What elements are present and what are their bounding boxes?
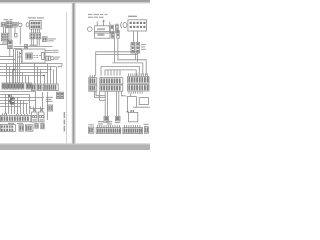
harness vertical bundle — [14, 49, 20, 84]
main switch label — [128, 16, 137, 17]
route wire A — [130, 94, 132, 97]
switch contact block — [26, 53, 32, 59]
connector bank right bottom — [128, 84, 149, 91]
marks above square — [130, 110, 134, 112]
mesh wire h4 — [0, 103, 28, 105]
arrow wire 3 — [109, 22, 111, 26]
speedometer unit 2 — [39, 112, 45, 122]
route wire D — [136, 97, 138, 108]
drop wires right group — [35, 64, 57, 84]
resistor stack — [131, 42, 140, 53]
mesh wire h2 — [0, 97, 44, 99]
bottom comb ticks right — [129, 91, 142, 93]
switch inner right rect — [42, 53, 45, 60]
dense junction cluster — [8, 94, 14, 104]
wire — [0, 44, 8, 46]
connector block B — [6, 22, 12, 28]
top margin band — [0, 0, 150, 2]
mesh wire h5 — [0, 106, 20, 108]
connector row block 5 — [31, 84, 36, 90]
CDI pins — [32, 29, 40, 33]
square box — [128, 112, 137, 121]
wire from fuse down — [114, 38, 116, 62]
ignition coil T1 — [8, 40, 12, 48]
bus wire 5 — [0, 75, 44, 77]
bus wire 3 — [0, 69, 52, 71]
switch dashes — [34, 55, 41, 57]
resistor labels — [141, 44, 146, 50]
bus label — [58, 66, 63, 67]
junction dot — [41, 109, 43, 111]
junction dot — [34, 109, 36, 111]
plug circle — [51, 57, 54, 60]
bottom strip row 2 left — [0, 125, 15, 132]
main switch box S1 — [128, 20, 147, 31]
connector bank mid bottom — [100, 85, 123, 91]
wires from CDI connectors — [31, 39, 39, 46]
terminal box above — [25, 45, 28, 49]
bottom strip long 2 — [123, 128, 143, 134]
battery block — [19, 125, 23, 131]
ignition coil pins — [9, 28, 11, 40]
connector block C — [13, 23, 17, 28]
label text right of diode — [48, 38, 56, 41]
lamp labels — [104, 122, 121, 123]
wires from grid — [3, 41, 7, 45]
fuse F1 — [111, 25, 114, 33]
connector row block mid — [26, 83, 31, 89]
label text above CDI — [28, 17, 44, 18]
small component pair — [112, 32, 115, 39]
connector below CDI left — [30, 33, 35, 39]
bus wire 4 — [0, 72, 48, 74]
route wire C — [127, 97, 129, 111]
tail wire 5 — [121, 91, 125, 95]
second frame wire — [96, 54, 138, 56]
headlight circle — [88, 27, 93, 32]
lamp circle — [19, 23, 22, 26]
mesh wire h3 — [0, 100, 36, 102]
strip label text — [8, 123, 23, 124]
mesh wire h0 — [0, 91, 36, 93]
route dot — [127, 111, 129, 113]
drop wires left group — [7, 64, 29, 84]
small block under gauge2 — [41, 124, 44, 129]
tail wire 3 — [100, 91, 106, 100]
gauge feed wires — [31, 92, 45, 112]
key bracket — [121, 22, 122, 28]
route wire E — [133, 106, 150, 108]
horn box — [95, 32, 110, 39]
mesh verticals — [6, 95, 30, 115]
bottom strip small left — [88, 127, 93, 133]
arrow wire 2 — [103, 20, 105, 26]
route wire B — [126, 96, 136, 98]
bus wire 1 — [0, 64, 62, 67]
bottom strip 2 ticks — [125, 125, 140, 128]
arrow wire 1 — [96, 22, 98, 27]
wire — [0, 56, 14, 58]
lamp unit 1 — [104, 116, 109, 120]
connector row block 6 — [37, 84, 42, 90]
comb connector strip — [0, 116, 30, 122]
wire below coil — [9, 49, 11, 57]
vertical page text — [64, 112, 66, 132]
bottom strip small right — [144, 127, 148, 134]
left bank pin ticks — [90, 75, 94, 78]
connector row blocks left — [2, 83, 24, 89]
strip right label — [144, 124, 149, 125]
legend text line 1 — [88, 14, 108, 15]
tail wire 2 — [96, 91, 105, 95]
bank feed 4 — [101, 66, 120, 75]
page background — [0, 0, 150, 150]
bottom margin band — [0, 143, 150, 144]
small box right — [139, 98, 148, 105]
bank feed 2 — [112, 63, 143, 75]
label text top-left — [4, 19, 13, 20]
junction dot — [43, 75, 45, 77]
bus wire 2 — [0, 66, 56, 68]
frame outline wire — [96, 52, 138, 76]
wire to fuse labels 1 — [14, 47, 53, 53]
speedometer unit 1 — [32, 112, 38, 122]
relay block pair — [56, 92, 63, 98]
main switch wires — [134, 31, 138, 42]
bank feed 5 — [105, 70, 136, 76]
connector block A — [1, 23, 6, 27]
wire — [47, 92, 49, 120]
small component 2 — [117, 30, 119, 38]
diode pair block — [42, 37, 47, 42]
connector bank left bottom — [89, 85, 97, 91]
connector bank left top — [89, 78, 97, 84]
lamp 2 pin wires — [117, 91, 119, 116]
label text — [53, 50, 60, 60]
multipin connector — [43, 84, 58, 91]
CDI magneto oval — [26, 23, 29, 27]
battery box — [95, 26, 110, 33]
mesh wire h1 — [0, 94, 30, 96]
bank feed 3 — [101, 66, 139, 75]
legend text line 2 — [88, 17, 104, 18]
bottom strip long 1 — [96, 128, 121, 134]
strip label — [88, 124, 94, 125]
flasher relay box — [48, 105, 53, 111]
resistor bottom wire — [135, 53, 137, 60]
comb ticks — [3, 113, 28, 116]
plug pair — [46, 56, 51, 60]
wire — [18, 22, 20, 24]
bank feed wires right — [118, 38, 146, 75]
strip 1 text — [98, 121, 112, 125]
lamp 1 pin wires — [105, 91, 107, 116]
CDI unit U1 — [30, 21, 42, 29]
junction dot — [13, 69, 15, 71]
small box right of coil — [15, 33, 17, 37]
connector bank right top — [128, 76, 149, 83]
bottom strip long 1 ticks — [97, 125, 119, 128]
tail wire 1 — [95, 91, 106, 97]
relay label — [46, 97, 53, 102]
fuse F2 — [116, 24, 119, 33]
bundle top stubs — [14, 49, 22, 58]
key oval — [123, 22, 127, 27]
label above box — [30, 45, 38, 46]
wires from blocks to grid — [4, 27, 21, 45]
wire — [0, 59, 16, 61]
connector bank mid top — [100, 78, 123, 84]
fusebox grid connector — [1, 33, 8, 41]
right bank comb ticks — [129, 73, 148, 76]
small block under gauge1 — [35, 124, 38, 129]
lamp unit 2 — [115, 116, 120, 120]
left page frame edge — [65, 12, 68, 143]
connector below CDI right — [36, 33, 41, 39]
page divider gutter — [72, 3, 73, 144]
bottom block right — [25, 125, 33, 131]
switch assembly box — [20, 49, 46, 63]
